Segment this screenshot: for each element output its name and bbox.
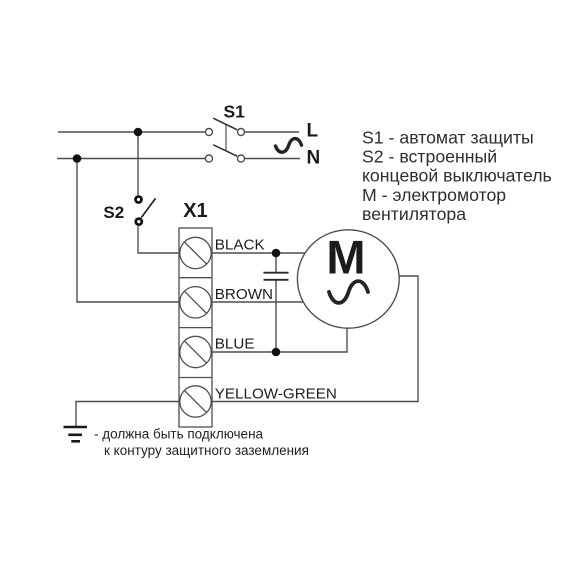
- svg-text:S1: S1: [224, 101, 246, 121]
- svg-text:YELLOW-GREEN: YELLOW-GREEN: [215, 385, 337, 402]
- svg-text:M - электромотор: M - электромотор: [362, 185, 506, 205]
- svg-text:S2: S2: [103, 203, 124, 222]
- svg-text:S1 - автомат защиты: S1 - автомат защиты: [362, 127, 534, 147]
- svg-text:концевой выключатель: концевой выключатель: [362, 166, 552, 186]
- svg-text:вентилятора: вентилятора: [362, 204, 466, 224]
- svg-text:BLACK: BLACK: [215, 237, 265, 254]
- svg-text:X1: X1: [183, 200, 207, 222]
- svg-text:M: M: [326, 231, 365, 284]
- svg-text:- должна быть подключена: - должна быть подключена: [94, 427, 264, 442]
- svg-text:S2 - встроенный: S2 - встроенный: [362, 147, 497, 167]
- svg-text:BLUE: BLUE: [215, 336, 255, 353]
- svg-text:к контуру защитного заземления: к контуру защитного заземления: [104, 443, 309, 458]
- svg-text:BROWN: BROWN: [215, 286, 273, 303]
- svg-text:N: N: [307, 148, 321, 169]
- svg-text:L: L: [307, 121, 319, 142]
